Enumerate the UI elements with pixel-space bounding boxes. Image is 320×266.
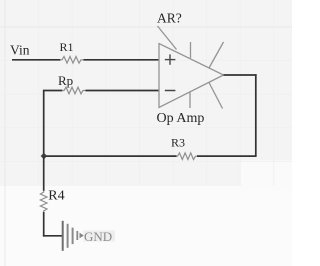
wire corner to ground — [43, 235, 62, 237]
wire feedback bottom right to R3 — [197, 155, 257, 157]
svg-text:R4: R4 — [48, 189, 64, 204]
ground GND power ground symbol — [62, 221, 84, 251]
svg-text:AR?: AR? — [157, 11, 182, 26]
wire output down right side — [255, 74, 257, 156]
svg-text:Vin: Vin — [10, 43, 30, 58]
resistor Rp — [58, 73, 86, 94]
wire feedback node to R3 — [44, 155, 177, 157]
junction node — [41, 153, 48, 160]
label GND — [84, 229, 116, 244]
wire Rp to op-amp - input — [86, 90, 160, 92]
wire R1 to op-amp + input — [84, 59, 160, 61]
wire node to R4 — [43, 156, 45, 191]
op-amp minus input marker — [165, 90, 176, 92]
resistor R1 — [60, 40, 84, 63]
wire corner to Rp — [43, 90, 63, 92]
wire R4 to ground corner — [43, 212, 45, 237]
resistor R4 — [40, 189, 64, 213]
op-amp AR? symbol — [158, 26, 224, 109]
svg-text:Rp: Rp — [58, 73, 73, 88]
svg-text:R3: R3 — [171, 135, 185, 149]
op-amp plus input marker — [165, 54, 176, 64]
svg-text:Op Amp: Op Amp — [157, 111, 205, 126]
svg-text:R1: R1 — [60, 40, 74, 54]
resistor R3 — [171, 135, 197, 159]
wire Rp left corner vertical — [43, 91, 45, 157]
svg-text:GND: GND — [84, 229, 112, 244]
wire Vin to R1 — [12, 59, 61, 61]
wire op-amp output — [224, 74, 257, 76]
